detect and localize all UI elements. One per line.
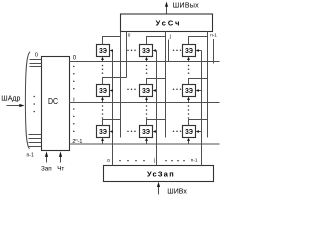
select stub r2cn [187, 138, 190, 144]
svg-text:n-1: n-1 [27, 152, 34, 158]
svg-text:ЗЭ: ЗЭ [99, 86, 107, 95]
memory cell ЗЭ r1c0 [97, 85, 110, 97]
column ellipsis dots gap2 y131 [173, 130, 182, 132]
select stub r1c0 [101, 97, 104, 103]
write stub r2c0 [110, 130, 113, 133]
read jog r0cj [147, 37, 166, 45]
svg-text:ШАдр: ШАдр [1, 95, 20, 102]
read bit line col n-1 [207, 32, 209, 138]
select stub r1cn [187, 97, 190, 103]
column ellipsis dots gap1 y50 [127, 50, 136, 52]
svg-text:j: j [153, 158, 155, 164]
memory cell ЗЭ r1cn [183, 85, 196, 97]
svg-text:ЗЭ: ЗЭ [142, 46, 150, 55]
write stub r1cn [196, 89, 202, 92]
write stub r2cn [196, 130, 202, 133]
svg-text:УсСч: УсСч [156, 19, 182, 28]
svg-text:ШИВых: ШИВых [173, 2, 199, 9]
svg-text:0: 0 [73, 55, 77, 61]
address tick 6 [29, 146, 42, 148]
column ellipsis dots gap2 y89 [173, 89, 182, 91]
svg-text:ШИВх: ШИВх [167, 188, 187, 195]
svg-text:Зап: Зап [41, 165, 52, 172]
memory cell ЗЭ r0cj [140, 45, 153, 57]
svg-text:DC: DC [48, 96, 58, 106]
svg-text:ЗЭ: ЗЭ [99, 127, 107, 136]
word line row 2^n-1 [69, 143, 220, 145]
svg-text:n-1: n-1 [191, 158, 198, 163]
svg-text:ЗЭ: ЗЭ [99, 46, 107, 55]
address tick 0 [30, 59, 42, 61]
memory cell ЗЭ r2cj [140, 126, 153, 138]
ellipsis dots above УсЗап left gap [119, 160, 145, 162]
svg-text:ЗЭ: ЗЭ [185, 127, 193, 136]
row ellipsis dots coln band1 [188, 65, 190, 74]
write stub r1cj [153, 89, 157, 92]
address brace [25, 52, 30, 149]
read bit line col 0 [120, 32, 122, 138]
svg-text:j: j [169, 34, 171, 40]
select stub r0cn [187, 57, 190, 62]
read jog r2cj [147, 120, 166, 126]
svg-text:УсЗап: УсЗап [147, 170, 175, 179]
word line row i [69, 102, 220, 104]
write bit line col 0 [112, 51, 114, 166]
svg-text:n-1: n-1 [210, 33, 217, 38]
column ellipsis dots gap2 y50 [173, 50, 182, 52]
bus ШИВх arrow [157, 182, 160, 195]
memory cell ЗЭ r2c0 [97, 126, 110, 138]
svg-text:0: 0 [35, 52, 38, 58]
read jog r1cn [189, 79, 208, 85]
read jog r2cn [189, 120, 208, 126]
write stub r1c0 [110, 89, 113, 92]
memory cell ЗЭ r0c0 [97, 45, 110, 57]
column ellipsis dots gap1 y89 [127, 89, 136, 91]
memory cell ЗЭ r0cn [183, 45, 196, 57]
bus ШИВых arrow [165, 2, 168, 15]
ШАдр arrow [7, 104, 25, 107]
address tick 2 [30, 66, 42, 68]
read jog r2c0 [103, 120, 121, 126]
row ellipsis dots colj band1 [146, 65, 148, 74]
address tick 5 [29, 142, 42, 144]
row ellipsis dots col0 band1 [102, 65, 104, 74]
row ellipsis dots col0 band2 [102, 105, 104, 119]
svg-text:ЗЭ: ЗЭ [185, 86, 193, 95]
address tick 4 [29, 138, 42, 140]
read bit line col j [165, 32, 167, 138]
write stub r0cn [196, 49, 202, 52]
row ellipsis dots colj band2 [146, 105, 148, 119]
svg-text:ЗЭ: ЗЭ [142, 127, 150, 136]
DC-side ellipsis dots band 2 [73, 108, 75, 132]
select stub r2cj [145, 138, 148, 144]
select stub r0cj [145, 57, 148, 62]
memory cell ЗЭ r2cn [183, 126, 196, 138]
address tick 1 [30, 63, 42, 65]
read amplifier block УсСч [121, 14, 213, 32]
address tick 3 [29, 134, 42, 136]
write amplifier block УсЗап [104, 166, 214, 182]
numbered net segment n-1 [213, 39, 215, 64]
write stub r0cj [153, 49, 157, 52]
address ellipsis dots [33, 96, 35, 113]
row ellipsis dots coln band2 [188, 105, 190, 119]
write bit line col j [156, 51, 158, 166]
write stub r2cj [153, 130, 157, 133]
ellipsis dots above УсЗап right gap [165, 160, 185, 162]
column ellipsis dots gap1 y131 [127, 130, 136, 132]
svg-text:0: 0 [128, 32, 131, 37]
Чт arrow [59, 151, 62, 162]
DC-side ellipsis dots band 1 [73, 66, 75, 90]
svg-text:0: 0 [107, 158, 110, 163]
numbered net segment j [168, 40, 170, 62]
write bit line col n-1 [201, 51, 203, 166]
svg-text:ЗЭ: ЗЭ [142, 86, 150, 95]
select stub r2c0 [101, 138, 104, 144]
read jog r0c0 [103, 37, 121, 45]
numbered net segment 0 [126, 32, 128, 78]
select stub r1cj [145, 97, 148, 103]
svg-text:ЗЭ: ЗЭ [185, 46, 193, 55]
word line row 0 [69, 61, 220, 63]
svg-text:Чт: Чт [57, 165, 64, 172]
Зап arrow [45, 151, 48, 162]
decoder DC [42, 57, 70, 151]
memory cell ЗЭ r1cj [140, 85, 153, 97]
select stub r0c0 [101, 57, 104, 62]
read jog r0cn [189, 37, 208, 45]
read jog r1cj [147, 79, 166, 85]
write stub r0c0 [110, 49, 113, 52]
read jog r1c0 [103, 78, 127, 85]
